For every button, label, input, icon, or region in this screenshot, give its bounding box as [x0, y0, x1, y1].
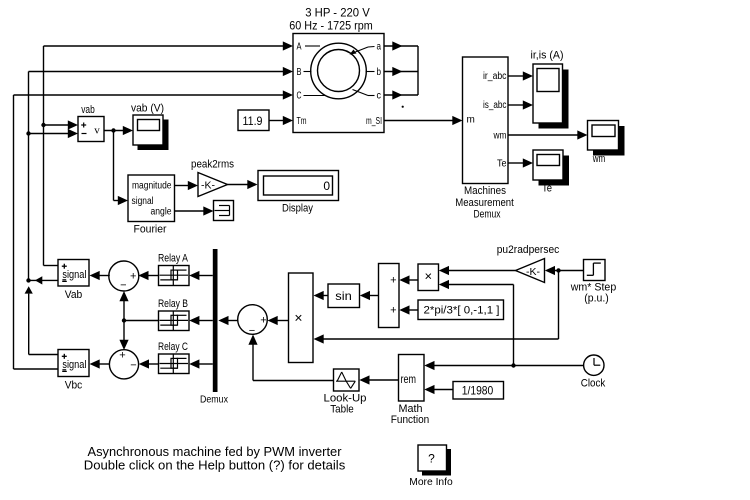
block asynchronous machine [293, 34, 384, 133]
svg-text:Machines: Machines [464, 185, 506, 197]
svg-text:Table: Table [330, 404, 354, 416]
clock [584, 355, 604, 375]
scope Te [533, 150, 569, 195]
svg-text:A: A [297, 42, 302, 53]
wire 1980 to rem [424, 385, 453, 394]
wire vab plus in [41, 120, 78, 129]
svg-text:?: ? [428, 452, 435, 466]
label machine rating [289, 6, 373, 33]
caption [84, 444, 346, 472]
wire is_abc [508, 100, 533, 109]
svg-text:C: C [297, 91, 302, 102]
wire Te [508, 158, 533, 167]
wire rem out [359, 375, 398, 384]
constant 1/1980 [453, 382, 504, 400]
wire sum3 right in [268, 316, 289, 325]
svg-text:angle: angle [151, 207, 172, 218]
svg-text:Demux: Demux [200, 394, 229, 406]
label Relay B [158, 298, 188, 310]
scope ir is [531, 50, 569, 129]
relay C [159, 354, 190, 374]
wire m_SI [384, 116, 463, 125]
svg-text:+: + [119, 350, 125, 362]
wire product1 in mod [314, 271, 559, 344]
svg-text:vab (V): vab (V) [131, 103, 164, 115]
svg-text:rem: rem [401, 372, 417, 386]
stray dot [402, 106, 404, 108]
label peak2rms [191, 159, 234, 171]
sum 2 [109, 350, 138, 379]
svg-text:×: × [294, 310, 302, 326]
wire sum2 out [90, 359, 110, 368]
label Relay A [158, 253, 189, 265]
wire clock to rem [424, 361, 583, 370]
block Display [258, 171, 339, 201]
svg-text:Display: Display [282, 203, 313, 215]
block Fourier [128, 175, 175, 222]
label Vab [65, 289, 83, 301]
wire step to gain [545, 266, 584, 275]
svg-text:−: − [130, 359, 136, 371]
wire rotor b [384, 67, 418, 76]
svg-text:ir_abc: ir_abc [483, 71, 507, 82]
svg-text:−: − [249, 325, 255, 337]
svg-text:1/1980: 1/1980 [462, 384, 494, 398]
svg-text:peak2rms: peak2rms [191, 159, 234, 171]
svg-text:Vab: Vab [65, 289, 83, 301]
svg-text:m: m [467, 115, 475, 126]
label Demux [200, 394, 229, 406]
label lookup table [324, 393, 367, 416]
svg-text:2*pi/3*[ 0,-1,1 ]: 2*pi/3*[ 0,-1,1 ] [424, 305, 500, 317]
wire Vab plus [44, 46, 59, 266]
wire Tm [269, 116, 293, 125]
wire product1 in sin [314, 291, 329, 300]
gain pu2radpersec [516, 259, 545, 283]
product 2 [418, 264, 439, 291]
sum 3 [238, 305, 268, 337]
wire sum3 bottom in [248, 335, 333, 381]
svg-text:signal: signal [132, 196, 154, 207]
svg-text:More Info: More Info [409, 476, 453, 488]
svg-text:Te: Te [542, 183, 552, 195]
wire fourier magnitude out [175, 181, 199, 190]
svg-text:−: − [120, 280, 126, 292]
label Math Function [391, 403, 430, 426]
svg-text:Relay A: Relay A [158, 253, 189, 265]
svg-text:c: c [377, 91, 382, 102]
svg-text:+: + [390, 305, 396, 317]
svg-text:0: 0 [323, 179, 330, 193]
svg-text:Function: Function [391, 414, 430, 426]
svg-text:×: × [425, 269, 433, 284]
svg-text:(p.u.): (p.u.) [584, 293, 609, 305]
relay B [159, 311, 190, 331]
wire Vbc minus [14, 368, 59, 370]
svg-text:m_SI: m_SI [366, 116, 382, 127]
svg-text:Fourier: Fourier [134, 224, 167, 236]
label wm* Step [570, 282, 616, 305]
wire demux to relayA [189, 271, 213, 280]
wire sum3 out [218, 316, 237, 325]
svg-text:Clock: Clock [581, 377, 606, 389]
label More Info [409, 476, 453, 488]
scope vab (V) [131, 103, 169, 151]
block machines measurement demux [463, 57, 509, 184]
wire product2 in2 [439, 280, 514, 366]
wire gain out [228, 180, 258, 189]
svg-text:wm: wm [493, 131, 507, 142]
svg-text:+: + [260, 315, 266, 327]
wire Vab minus out [26, 276, 58, 284]
svg-text:wm: wm [592, 153, 605, 165]
svg-text:Measurement: Measurement [455, 197, 514, 209]
svg-text:magnitude: magnitude [132, 181, 172, 192]
svg-text:is_abc: is_abc [483, 100, 507, 111]
block lookup table [334, 369, 360, 391]
svg-text:-K-: -K- [201, 180, 216, 192]
wire vab minus in [26, 129, 78, 138]
scope wm [588, 121, 625, 166]
wire sin in [360, 291, 379, 300]
svg-text:3 HP - 220 V: 3 HP - 220 V [305, 6, 370, 20]
wire rotor c [384, 90, 418, 99]
sum 4 [379, 264, 400, 328]
label Relay C [158, 341, 188, 353]
constant 2pi3 [418, 300, 504, 320]
wire rotor a [384, 41, 418, 50]
wire phase B [29, 67, 294, 281]
svg-text:sin: sin [335, 289, 352, 303]
svg-text:-K-: -K- [526, 266, 541, 278]
wire product2 in1 [439, 266, 516, 275]
label pu2radpersec [497, 244, 560, 256]
svg-text:B: B [297, 67, 302, 78]
relay A [159, 266, 190, 286]
wire phase C [14, 90, 294, 369]
wire demux to relayB [189, 316, 213, 325]
source Vab [58, 260, 89, 287]
svg-text:60 Hz - 1725 rpm: 60 Hz - 1725 rpm [289, 19, 373, 33]
block terminator [214, 201, 234, 221]
product 1 [289, 273, 314, 363]
label machines measurement demux [455, 185, 514, 220]
sum 1 [109, 261, 139, 292]
block more info [418, 445, 451, 476]
step wm* [584, 260, 606, 281]
svg-text:+: + [130, 270, 136, 282]
svg-text:+: + [390, 275, 396, 287]
block sin [328, 284, 360, 308]
wire Vbc plus riser [25, 286, 58, 354]
wire vab out [104, 126, 133, 205]
label Clock [581, 377, 606, 389]
svg-text:a: a [377, 42, 382, 53]
gain peak2rms [198, 173, 228, 197]
svg-text:Vbc: Vbc [65, 380, 83, 392]
label Vbc [65, 380, 83, 392]
source Vbc [58, 350, 89, 377]
demux bar [213, 249, 218, 392]
block vab sum [78, 117, 104, 142]
svg-text:v: v [94, 125, 100, 137]
wire fourier angle out [175, 206, 214, 215]
label Fourier [134, 224, 167, 236]
wire phase bus vertical [119, 291, 128, 350]
wire ir_abc [508, 71, 533, 80]
label Display [282, 203, 313, 215]
svg-text:Double click on the Help butto: Double click on the Help button (?) for … [84, 457, 346, 472]
svg-text:11.9: 11.9 [243, 114, 263, 128]
wire wm [508, 130, 588, 139]
svg-text:b: b [377, 67, 382, 78]
svg-text:ir,is (A): ir,is (A) [531, 50, 564, 62]
wire sum4 in2 [399, 305, 418, 314]
wire relayB out [124, 320, 159, 322]
svg-text:Demux: Demux [474, 208, 501, 220]
label vab [81, 104, 95, 116]
svg-text:Tm: Tm [297, 116, 307, 127]
wire sum1 out [90, 271, 110, 280]
svg-text:Te: Te [497, 159, 507, 170]
svg-text:vab: vab [81, 104, 95, 116]
wire demux to relayC [189, 359, 213, 368]
svg-text:Relay C: Relay C [158, 341, 188, 353]
wire phase A [44, 41, 294, 265]
wire sum1 right in [138, 271, 158, 280]
wire sum2 right in [139, 359, 159, 368]
wire sum4 in1 [399, 275, 418, 284]
svg-text:Relay B: Relay B [158, 298, 188, 310]
svg-text:pu2radpersec: pu2radpersec [497, 244, 560, 256]
constant 11.9 [238, 110, 269, 131]
wire rotor short [417, 46, 419, 95]
block rem [399, 355, 425, 402]
